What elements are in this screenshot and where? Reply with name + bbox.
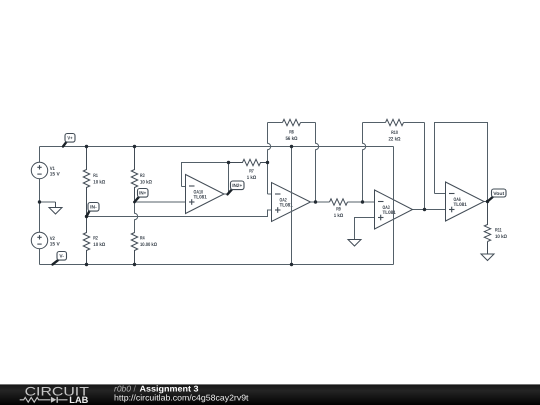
resistor R8 xyxy=(283,119,301,125)
svg-text:10 kΩ: 10 kΩ xyxy=(93,242,105,248)
wire R8 loop top left xyxy=(268,122,283,124)
wire OA2 output xyxy=(311,201,330,203)
flag IN- xyxy=(87,211,90,217)
svg-text:TL081: TL081 xyxy=(194,195,207,201)
svg-text:15 V: 15 V xyxy=(50,242,61,248)
resistor R9 xyxy=(330,199,348,205)
junction IN- node xyxy=(85,215,88,218)
junction R1 top on V+ rail xyxy=(85,145,88,148)
ground below R11 xyxy=(481,242,494,261)
svg-text:R2: R2 xyxy=(93,235,98,241)
wire OA3 power pin overlay xyxy=(393,190,395,229)
junction R9 / OA3 minus xyxy=(361,200,364,203)
wire OA2 minus input xyxy=(268,193,272,195)
wire IN- to OA2 plus input xyxy=(87,210,272,217)
wire ground stub left xyxy=(40,201,56,203)
wire V+ rail xyxy=(40,146,394,148)
logo resistor zigzag and diode xyxy=(20,397,68,402)
resistor R10 xyxy=(386,119,404,125)
wire R10 loop top left xyxy=(363,122,386,124)
wire OA6 minus input xyxy=(435,193,446,195)
flag Vout xyxy=(488,197,494,202)
wire R8 loop top right xyxy=(301,122,316,124)
svg-text:Vout: Vout xyxy=(493,191,504,197)
junction OA6 output xyxy=(486,200,489,203)
svg-text:V+: V+ xyxy=(67,136,72,142)
svg-text:22 kΩ: 22 kΩ xyxy=(389,137,401,143)
op-amp OA3 TL081 xyxy=(375,190,413,229)
wire OA10 plus input xyxy=(135,201,186,203)
footer bar background xyxy=(0,384,540,405)
wire OA3 output to OA6 plus input xyxy=(413,209,446,211)
wire OA10 minus input xyxy=(182,186,186,188)
svg-text:IN+: IN+ xyxy=(139,191,146,197)
wire V2 top lead xyxy=(39,202,41,232)
flag V+ xyxy=(63,142,67,147)
junction R2 bottom on V- rail xyxy=(85,263,88,266)
svg-text:10 kΩ: 10 kΩ xyxy=(495,234,507,240)
ground at OA3 plus input xyxy=(348,240,361,247)
svg-text:R9: R9 xyxy=(336,207,341,213)
svg-text:10.00 kΩ: 10.00 kΩ xyxy=(140,242,157,248)
wire OA3 plus input with ground branch xyxy=(355,218,375,240)
wire OA10 output xyxy=(224,163,229,195)
junction OA2 output xyxy=(314,200,317,203)
wire R8 loop left vertical with hop over V+ rail xyxy=(268,123,271,195)
svg-text:1 kΩ: 1 kΩ xyxy=(247,175,257,181)
svg-text:R7: R7 xyxy=(249,169,254,175)
ground at supply midpoint xyxy=(49,202,62,214)
svg-text:IN2+: IN2+ xyxy=(232,183,242,189)
junction OA2 V+ pin on rail xyxy=(290,145,293,148)
wire R9 right to OA3 minus xyxy=(348,201,375,203)
op-amp OA6 TL081 xyxy=(446,182,485,221)
resistor R1 xyxy=(83,147,89,217)
voltage source V2 15 V xyxy=(31,232,47,248)
resistor R11 xyxy=(484,202,490,242)
wire R3 column hop over IN- wire xyxy=(135,202,138,232)
wire R8 loop right vertical with hop over V+ rail xyxy=(316,123,319,203)
svg-text:IN-: IN- xyxy=(90,205,97,211)
junction IN+ node xyxy=(133,201,136,204)
junction OA10 output / R7 xyxy=(227,161,230,164)
junction ground node xyxy=(38,200,41,203)
junction R4 bottom on V- rail xyxy=(133,263,136,266)
wire R10 loop left vertical with hop over V+ rail xyxy=(363,123,366,203)
svg-text:1 kΩ: 1 kΩ xyxy=(334,213,344,219)
wire R10 loop top right xyxy=(404,122,425,124)
svg-text:R8: R8 xyxy=(289,130,294,136)
resistor R4 xyxy=(131,232,137,264)
wire V1-ground segment xyxy=(39,179,41,202)
op-amp OA10 TL081 xyxy=(186,175,225,214)
svg-text:LAB: LAB xyxy=(69,395,88,405)
svg-text:TL081: TL081 xyxy=(454,202,467,208)
resistor R7 xyxy=(229,159,268,165)
resistor R3 xyxy=(131,147,137,203)
flag IN+ xyxy=(135,197,140,202)
svg-text:http://circuitlab.com/c4g58cay: http://circuitlab.com/c4g58cay2rv9t xyxy=(114,393,249,403)
wire OA6 feedback loop xyxy=(435,123,488,202)
flag V- xyxy=(53,260,59,265)
svg-text:R1: R1 xyxy=(93,173,98,179)
voltage source V1 15 V xyxy=(31,162,47,178)
svg-text:R11: R11 xyxy=(495,228,502,234)
svg-text:R10: R10 xyxy=(391,130,398,136)
svg-text:10 kΩ: 10 kΩ xyxy=(93,180,105,186)
wire OA2 power pin overlay xyxy=(291,183,293,222)
wire OA6 output xyxy=(484,201,488,203)
flag IN2+ xyxy=(228,189,233,194)
svg-text:10 kΩ: 10 kΩ xyxy=(140,180,152,186)
resistor R2 xyxy=(83,217,89,265)
wire V1 top lead xyxy=(39,147,41,163)
svg-text:15 V: 15 V xyxy=(50,172,61,178)
wire OA2 power pin xyxy=(291,147,293,265)
svg-text:V-: V- xyxy=(59,254,64,260)
svg-text:R3: R3 xyxy=(140,173,145,179)
junction OA3 output xyxy=(423,208,426,211)
wire OA3 power pin xyxy=(393,147,395,265)
svg-text:TL081: TL081 xyxy=(280,203,293,209)
wire OA10 feedback top xyxy=(182,163,229,187)
svg-text:R4: R4 xyxy=(140,235,145,241)
svg-text:56 kΩ: 56 kΩ xyxy=(286,136,298,142)
wire V2 bottom lead xyxy=(39,249,41,265)
junction OA2 V- pin on rail xyxy=(290,263,293,266)
junction R7 / OA2 minus xyxy=(266,161,269,164)
wire R10 loop right vertical xyxy=(424,123,426,210)
op-amp OA2 TL081 xyxy=(272,183,311,222)
wire V- rail xyxy=(40,264,394,266)
junction R3 top on V+ rail xyxy=(133,145,136,148)
